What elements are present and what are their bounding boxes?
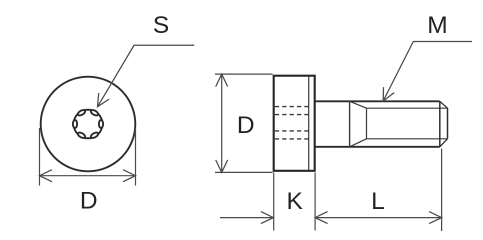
thread minor diameter bottom line (367, 138, 448, 140)
end chamfer bottom (440, 139, 448, 147)
extension line K left (273, 173, 275, 231)
dimension line D (front view) (40, 175, 136, 177)
leader line for S (98, 45, 195, 107)
thread minor diameter left edge (366, 108, 368, 139)
dimension line L (315, 217, 442, 219)
torx lobe lower-right (90, 131, 99, 139)
extension line top of side D (215, 73, 273, 75)
svg-text:M: M (427, 12, 447, 39)
arrowhead of M leader (383, 87, 394, 101)
left arrow of L pointing left (315, 212, 328, 224)
extension line L right (441, 149, 443, 232)
end chamfer top (440, 101, 448, 108)
thread start line (349, 101, 351, 147)
svg-text:L: L (371, 188, 385, 215)
screw head rectangle (side view) (274, 76, 315, 171)
torx lobe left (73, 120, 77, 128)
dimension line K (outside shaft) (220, 217, 273, 219)
end face line (447, 108, 449, 139)
svg-text:D: D (237, 112, 255, 139)
extension line left of circle D (39, 128, 41, 186)
screw head outer circle (front view) (41, 77, 136, 172)
torx lobe upper-left (77, 109, 86, 117)
bottom arrow of D (side view) (216, 160, 228, 173)
shank bottom outline (315, 146, 440, 148)
torx lobe lower-left (77, 131, 86, 139)
leader line for M (383, 42, 472, 102)
dimension line D (side view) (221, 74, 223, 172)
svg-text:D: D (80, 188, 98, 215)
hidden socket line 3 (275, 130, 309, 132)
extension line bottom of side D (215, 171, 273, 173)
arrowhead of S leader (98, 93, 110, 107)
right arrow of L pointing right (429, 212, 442, 224)
right arrow of D (front view) (123, 170, 136, 182)
svg-text:K: K (287, 188, 304, 215)
arrow of K pointing right (261, 212, 274, 224)
torx socket ring (74, 110, 103, 139)
svg-text:S: S (153, 12, 169, 39)
left arrow of D (front view) (40, 170, 53, 182)
shank top outline (315, 100, 440, 102)
thread minor diameter top line (367, 107, 448, 109)
hidden socket line 4 (275, 138, 309, 140)
torx lobe right (99, 120, 103, 128)
extension line K right / L left (314, 173, 316, 231)
hidden socket line 1 (275, 106, 309, 108)
torx lobe upper-right (90, 109, 99, 117)
thread end line (439, 101, 441, 147)
hidden socket line 2 (275, 114, 309, 116)
top arrow of D (side view) (216, 74, 228, 87)
head chamfer line (308, 77, 310, 171)
thread runout chamfer top (350, 101, 367, 108)
extension line right of circle D (135, 128, 137, 186)
thread runout chamfer bottom (350, 139, 367, 147)
